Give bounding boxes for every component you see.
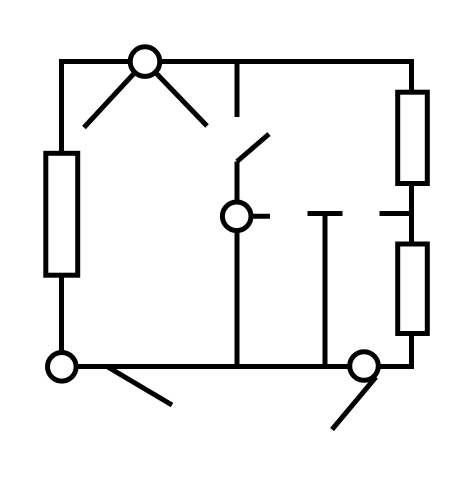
switch S1 blade [237, 134, 269, 162]
node N1 tick [237, 214, 270, 219]
wire bottom rail [62, 364, 365, 369]
wire left lower segment [59, 275, 64, 367]
lamp L1 ray left [84, 62, 145, 128]
wire right segment between resistors [409, 183, 414, 245]
node N3 body bottom-right [350, 352, 379, 381]
terminal T1 stem [323, 214, 328, 367]
resistor R1 [46, 153, 78, 275]
wire bottom-right corner up to resistor R3 [364, 334, 412, 367]
switch S2 lever at bottom-left [107, 367, 172, 406]
node N2 body bottom-left [48, 353, 77, 382]
wire middle stub from top rail [235, 62, 240, 118]
tap wire into right rail [380, 211, 412, 216]
node N1 body [222, 202, 251, 231]
resistor R3 [398, 244, 428, 334]
wire middle drop to bottom rail [235, 162, 240, 367]
switch S3 lever at bottom-right [332, 377, 376, 430]
wire top rail with left and right corners [62, 62, 412, 154]
lamp L1 ray right [145, 62, 207, 126]
terminal T1 bar [308, 211, 343, 216]
lamp L1 body [130, 47, 160, 77]
resistor R2 [398, 92, 428, 183]
